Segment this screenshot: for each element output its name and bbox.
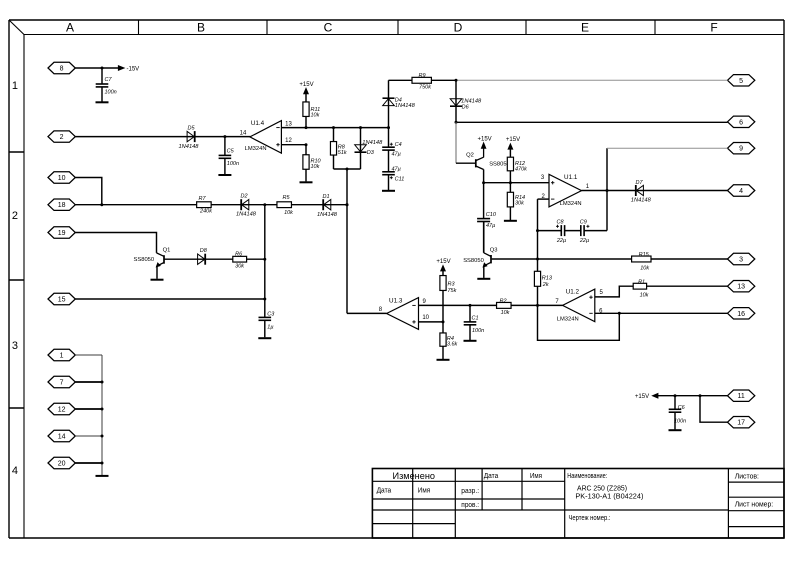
svg-text:7: 7 [60,380,64,387]
svg-text:51k: 51k [338,150,347,156]
svg-text:2k: 2k [542,282,549,288]
svg-text:Q3: Q3 [490,248,498,254]
svg-text:D3: D3 [367,150,375,156]
svg-text:R13: R13 [542,275,553,281]
svg-text:Дата: Дата [484,473,499,480]
svg-text:ARC 250 (Z285): ARC 250 (Z285) [577,486,627,493]
svg-text:+15V: +15V [506,137,520,143]
svg-text:C7: C7 [105,77,113,83]
svg-text:PK-130-A1 (B04224): PK-130-A1 (B04224) [575,494,643,501]
svg-text:10k: 10k [640,266,649,272]
svg-text:U1.3: U1.3 [389,297,403,304]
svg-text:10: 10 [58,175,66,182]
svg-text:22µ: 22µ [579,238,589,244]
svg-text:пров.:: пров.: [461,502,479,509]
svg-text:B: B [197,21,205,35]
svg-text:750k: 750k [419,85,431,91]
svg-text:LM324N: LM324N [245,146,267,152]
svg-text:8: 8 [60,66,64,73]
svg-text:R9: R9 [418,73,425,79]
svg-text:47µ: 47µ [392,167,401,173]
svg-text:3: 3 [739,257,743,264]
svg-text:2: 2 [12,210,18,222]
svg-text:240k: 240k [199,209,212,215]
svg-text:1: 1 [60,353,64,360]
svg-text:5: 5 [739,78,743,85]
svg-text:Q1: Q1 [163,247,171,253]
svg-text:3: 3 [12,340,18,352]
svg-text:LM324N: LM324N [560,201,582,207]
svg-text:D7: D7 [635,180,643,186]
svg-text:Листов:: Листов: [735,474,759,481]
svg-text:4: 4 [739,188,743,195]
svg-text:11: 11 [737,393,744,400]
svg-text:14: 14 [58,434,66,441]
svg-text:22µ: 22µ [556,238,566,244]
svg-text:30k: 30k [515,201,524,207]
svg-text:E: E [581,21,589,35]
svg-text:+15V: +15V [635,394,649,400]
svg-text:4: 4 [12,465,18,477]
svg-text:18: 18 [58,202,66,209]
svg-text:SS8050: SS8050 [134,257,155,263]
svg-text:47µ: 47µ [392,152,401,158]
svg-text:12: 12 [58,407,66,414]
svg-text:17: 17 [737,420,745,427]
svg-text:75k: 75k [448,288,457,294]
svg-text:13: 13 [285,122,292,128]
svg-text:SS8050: SS8050 [463,258,484,264]
svg-text:Дата: Дата [377,487,392,494]
svg-text:10k: 10k [501,310,510,316]
svg-text:C9: C9 [580,220,587,226]
svg-text:D8: D8 [200,248,208,254]
svg-text:A: A [66,21,74,35]
svg-text:1N4148: 1N4148 [317,212,338,218]
svg-text:1N4148: 1N4148 [362,140,383,146]
svg-text:20: 20 [58,461,66,468]
svg-text:Имя: Имя [418,487,431,494]
svg-text:2: 2 [60,134,64,141]
svg-text:D1: D1 [322,194,329,200]
svg-text:D6: D6 [462,104,470,110]
svg-text:+15V: +15V [478,137,492,143]
svg-text:U1.2: U1.2 [566,289,580,296]
svg-text:LM324N: LM324N [557,316,579,322]
svg-text:12: 12 [285,138,292,144]
svg-text:D5: D5 [187,126,195,132]
svg-text:C10: C10 [486,212,497,218]
svg-text:C3: C3 [267,312,275,318]
svg-text:R5: R5 [282,195,290,201]
svg-text:R1: R1 [638,280,645,286]
svg-text:13: 13 [737,284,745,291]
svg-text:100n: 100n [105,90,117,96]
svg-text:R3: R3 [448,282,456,288]
svg-text:Q2: Q2 [466,153,474,159]
svg-text:9: 9 [739,146,743,153]
svg-text:30k: 30k [235,263,244,269]
svg-text:C11: C11 [395,176,405,182]
svg-text:10k: 10k [640,293,649,299]
svg-text:Имя: Имя [530,473,542,480]
svg-text:10k: 10k [311,164,320,170]
svg-text:100n: 100n [674,418,686,424]
svg-text:C4: C4 [395,142,402,148]
svg-text:6: 6 [739,119,743,126]
svg-text:1N4148: 1N4148 [631,198,652,204]
svg-text:1N4148: 1N4148 [236,212,257,218]
svg-text:U1.1: U1.1 [564,174,578,181]
svg-text:Лист номер:: Лист номер: [735,501,774,508]
svg-text:R2: R2 [499,298,506,304]
svg-text:D: D [454,21,463,35]
svg-text:+15V: +15V [436,259,450,265]
svg-text:10: 10 [422,315,429,321]
svg-text:R7: R7 [198,196,206,202]
svg-text:15: 15 [58,297,66,304]
svg-text:10k: 10k [284,210,293,216]
svg-text:100n: 100n [227,161,239,167]
svg-text:D2: D2 [240,194,247,200]
svg-text:+15V: +15V [299,82,313,88]
svg-text:Изменено: Изменено [393,471,436,482]
svg-text:Чертеж номер.:: Чертеж номер.: [569,515,611,522]
svg-text:100n: 100n [472,328,484,334]
svg-text:16: 16 [737,311,745,318]
svg-text:F: F [710,21,717,35]
svg-text:14: 14 [240,130,247,136]
svg-text:C6: C6 [678,405,686,411]
svg-text:3.6k: 3.6k [447,341,458,347]
svg-text:1N4148: 1N4148 [179,144,200,150]
svg-text:470k: 470k [515,166,527,172]
svg-text:U1.4: U1.4 [251,120,265,127]
svg-text:C5: C5 [227,148,235,154]
svg-text:разр.:: разр.: [461,488,479,495]
svg-text:1µ: 1µ [267,325,273,331]
svg-text:1N4148: 1N4148 [395,103,416,109]
svg-text:47µ: 47µ [486,223,495,229]
svg-text:C1: C1 [472,316,479,322]
svg-text:R6: R6 [235,251,243,257]
svg-text:Наименование:: Наименование: [567,473,607,480]
svg-text:-15V: -15V [127,66,140,72]
svg-text:10k: 10k [311,113,320,119]
svg-text:R15: R15 [639,252,650,258]
svg-text:C: C [324,21,333,35]
svg-text:19: 19 [58,230,66,237]
svg-text:1: 1 [12,80,18,92]
